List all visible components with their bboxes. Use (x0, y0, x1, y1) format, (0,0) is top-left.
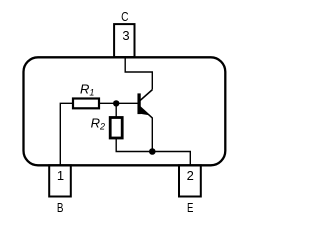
pin 2 box (179, 165, 201, 196)
svg-text:R1: R1 (80, 81, 94, 97)
pin 3 box (114, 24, 134, 57)
svg-text:3: 3 (122, 28, 129, 43)
svg-text:2: 2 (187, 168, 194, 183)
resistor R2 (110, 118, 122, 139)
wire R2 bottom to emitter rail and pin2 (116, 138, 190, 166)
wire base: pin1 up and right to R1 (60, 103, 73, 165)
svg-text:R2: R2 (91, 115, 105, 131)
emitter wire down (151, 118, 153, 152)
resistor R1 (73, 99, 99, 109)
wire pin1 stub (59, 164, 61, 166)
node junction dot emitter rail (149, 148, 156, 155)
emitter diagonal (139, 106, 152, 118)
wire collector to pin3 (125, 58, 152, 90)
pin 1 box (49, 165, 71, 196)
transistor Q1 base bar (137, 93, 140, 114)
svg-text:1: 1 (57, 168, 64, 183)
wire R1 to transistor base (99, 102, 138, 104)
emitter arrowhead (140, 107, 149, 115)
svg-text:C: C (121, 9, 128, 24)
svg-text:E: E (187, 200, 194, 215)
wire node to R2 top (115, 103, 117, 116)
svg-text:B: B (57, 200, 64, 215)
package body outline (24, 57, 226, 165)
node junction dot B-R2 (113, 100, 119, 106)
collector diagonal (139, 90, 152, 102)
